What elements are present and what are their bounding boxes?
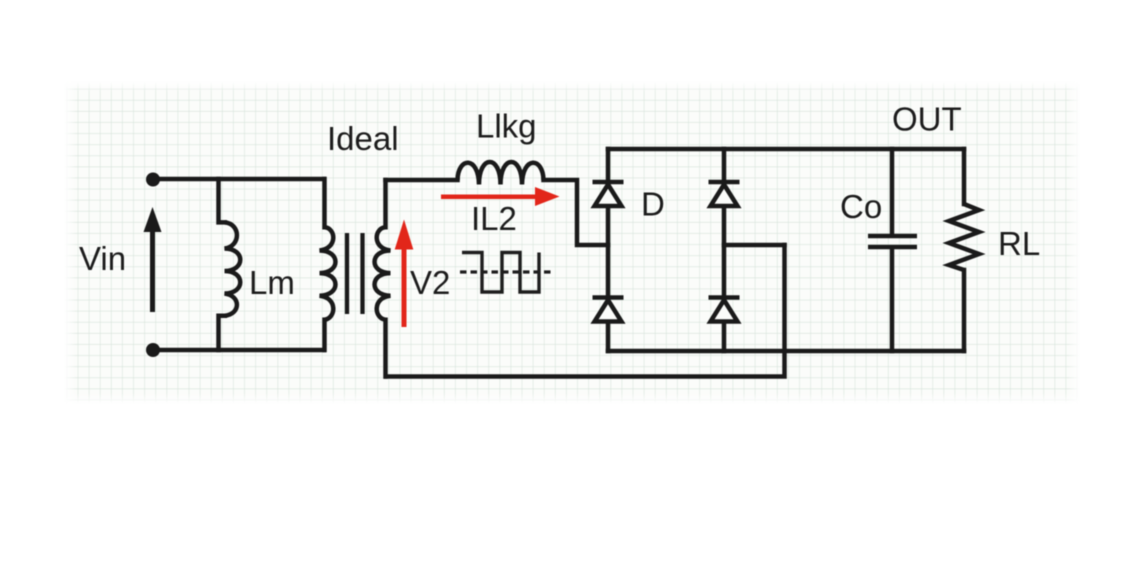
inductor Llkg xyxy=(458,162,544,185)
node top-left terminal xyxy=(146,173,160,187)
wire bridge top rail to OUT xyxy=(608,147,964,152)
svg-text:V2: V2 xyxy=(410,264,450,301)
wire secondary top to Llkg xyxy=(386,178,458,183)
svg-text:Vin: Vin xyxy=(79,240,126,277)
wire Co top lead xyxy=(890,149,895,234)
wire primary winding bottom lead xyxy=(322,320,327,350)
transformer primary winding xyxy=(320,227,336,319)
resistor RL xyxy=(949,204,979,270)
capacitor Co xyxy=(868,236,917,247)
svg-text:Llkg: Llkg xyxy=(476,108,537,145)
node bottom-left terminal xyxy=(146,343,160,357)
svg-text:D: D xyxy=(641,186,665,223)
arrow Vin xyxy=(144,207,162,312)
wire bridge right mid xyxy=(724,243,785,248)
svg-text:Co: Co xyxy=(840,188,882,225)
wire primary bottom rail xyxy=(153,348,324,353)
wire secondary return bottom xyxy=(386,245,785,377)
diode D3 bottom-left xyxy=(593,298,624,322)
waveform icon xyxy=(460,253,553,293)
wire secondary winding top lead xyxy=(383,180,388,227)
wire secondary winding bottom lead xyxy=(383,320,388,377)
svg-text:OUT: OUT xyxy=(892,101,962,138)
wire Lm branch top xyxy=(219,179,225,222)
inductor Lm xyxy=(225,222,241,315)
diode D2 top-right xyxy=(709,182,740,206)
wire Llkg to bridge corner xyxy=(544,180,609,245)
transformer core xyxy=(347,233,363,314)
wire bridge bottom rail xyxy=(608,349,964,354)
svg-text:RL: RL xyxy=(998,225,1040,262)
wire primary winding top lead xyxy=(322,179,327,227)
wire Lm branch bottom xyxy=(219,316,225,350)
wire bridge right leg xyxy=(722,149,727,351)
wire RL bottom lead xyxy=(962,270,967,351)
svg-text:IL2: IL2 xyxy=(471,200,517,237)
wire RL top lead xyxy=(962,149,967,204)
svg-text:Lm: Lm xyxy=(249,264,295,301)
wire primary top rail xyxy=(153,177,324,182)
diode D4 bottom-right xyxy=(709,298,740,322)
wire bridge left leg xyxy=(606,149,611,351)
arrow IL2 xyxy=(441,187,560,206)
wire Co bottom lead xyxy=(890,249,895,352)
transformer secondary winding xyxy=(375,227,391,319)
svg-text:Ideal: Ideal xyxy=(327,120,399,157)
arrow V2 xyxy=(395,220,414,328)
diode D1 top-left xyxy=(593,182,624,206)
